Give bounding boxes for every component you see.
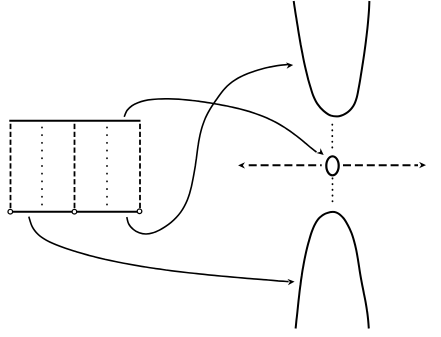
curved arrow C (rect bottom-left to lower parabola) (29, 217, 289, 282)
ellipse (326, 156, 338, 175)
lower parabola (296, 212, 369, 329)
vertical dotted line lower segment (332, 178, 334, 207)
arrowhead A (286, 62, 293, 69)
upper parabola (294, 1, 370, 116)
rectangle left dashed edge (10, 124, 12, 210)
arrowhead B (316, 148, 325, 157)
node circle middle (72, 209, 77, 214)
rectangle bottom edge (9, 211, 139, 213)
rectangle right dashed edge (139, 124, 141, 210)
right arrowhead (419, 162, 426, 168)
curved arrow B (rect top to ellipse) (124, 99, 316, 152)
node circle left (8, 209, 13, 214)
left arrowhead (238, 162, 245, 168)
rectangle left dotted line (41, 127, 43, 208)
node circle right (137, 209, 142, 214)
horizontal dashed arrow line right segment (343, 164, 418, 166)
horizontal dashed arrow line left segment (249, 164, 322, 166)
arrowhead C (287, 278, 294, 285)
rectangle top edge (9, 120, 140, 122)
rectangle middle dashed line (74, 124, 76, 210)
curved arrow A (rect bottom-right to upper parabola) (127, 64, 289, 234)
vertical dotted line upper segment (331, 125, 333, 152)
rectangle right dotted line (106, 127, 108, 208)
